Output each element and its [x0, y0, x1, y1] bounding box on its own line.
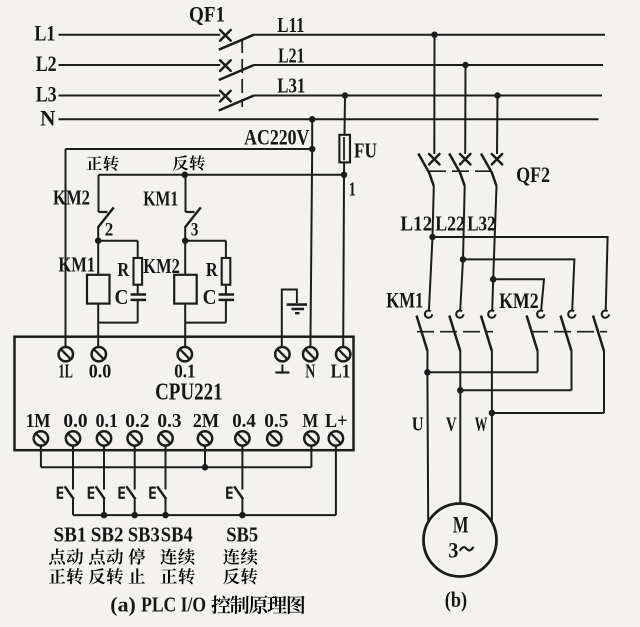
- pushbutton SB5 wire to rail: [241, 499, 243, 515]
- breaker QF2 linkage: [429, 170, 491, 172]
- svg-text:C: C: [115, 285, 129, 309]
- wire L+ drop: [335, 446, 337, 515]
- wire RC1 return: [98, 322, 138, 324]
- contactor KM1 pole3 hook: [488, 311, 495, 318]
- junction on L11: [431, 31, 438, 38]
- PLC bottom terminal M: [304, 431, 318, 445]
- svg-text:SB2: SB2: [91, 522, 124, 546]
- svg-text:KM1: KM1: [58, 253, 95, 277]
- contact KM1 NC fixed tick: [186, 211, 195, 213]
- svg-text:0.4: 0.4: [232, 410, 256, 432]
- wire ground hook: [282, 290, 297, 304]
- pushbutton SB5 blade: [234, 486, 243, 499]
- contactor KM2 linkage: [531, 331, 607, 333]
- wire W to motor: [491, 413, 493, 522]
- pushbutton SB3 actuator: [118, 487, 120, 499]
- junction node 1: [341, 172, 348, 179]
- svg-text:SB4: SB4: [161, 522, 193, 546]
- label SB1 function line1 (dian dong): [49, 548, 65, 564]
- wire 1M drop: [40, 446, 42, 468]
- svg-text:QF2: QF2: [516, 162, 550, 187]
- contactor KM1 pole1 blade: [417, 316, 428, 352]
- wire L31 drop to QF2: [496, 96, 499, 155]
- label reverse (fan zhuan): [173, 155, 188, 170]
- wire L3: [59, 95, 221, 97]
- PLC bottom terminal 0.5: [267, 431, 281, 445]
- pushbutton SB4 wire from PLC: [165, 446, 167, 490]
- wire junction to coil KM2: [184, 241, 186, 275]
- junction V: [457, 387, 464, 394]
- svg-text:(b): (b): [445, 587, 467, 612]
- svg-text:0.0: 0.0: [89, 360, 112, 382]
- wire L22 to KM2 pole2: [463, 259, 574, 310]
- contact KM2 NC fixed tick: [99, 211, 108, 213]
- PLC bottom terminal 0.4: [235, 431, 249, 445]
- PLC bottom terminal L+: [329, 431, 343, 445]
- junction branch2: [182, 237, 189, 244]
- fuse FU wire: [344, 96, 345, 175]
- junction on L31 to FU: [342, 92, 349, 99]
- wire button rail: [73, 514, 336, 516]
- PLC ground terminal mark: [281, 365, 283, 373]
- wire KM1 pole1 out: [426, 351, 428, 372]
- svg-text:L21: L21: [278, 43, 304, 67]
- wire L11: [254, 34, 605, 36]
- pushbutton SB3 blade: [126, 486, 135, 499]
- svg-text:L12: L12: [400, 211, 432, 235]
- svg-text:W: W: [475, 413, 488, 435]
- wire RC branch1 upper: [137, 241, 139, 258]
- pushbutton SB1 actuator: [57, 487, 59, 499]
- breaker QF1 pole 2 contact X: [220, 60, 231, 71]
- breaker QF1 pole 2 blade: [219, 65, 254, 80]
- wire left rail to 1L: [65, 149, 67, 347]
- breaker QF2 blade: [481, 154, 497, 187]
- PLC top terminal N: [303, 347, 317, 361]
- label SB1 function line2 (zheng zhuan): [49, 568, 65, 583]
- breaker QF2 contact X: [460, 154, 470, 164]
- PLC bottom terminal 0.0: [66, 431, 80, 445]
- contactor KM1 pole3 blade: [481, 316, 492, 352]
- breaker QF2 blade: [449, 154, 465, 187]
- svg-text:3: 3: [448, 537, 458, 562]
- pushbutton SB1 wire to rail: [72, 499, 74, 515]
- wire coil KM2 to 0.1 terminal: [184, 304, 186, 348]
- svg-text:QF1: QF1: [189, 2, 225, 27]
- wire control top rail: [66, 148, 313, 150]
- svg-text:0.1: 0.1: [174, 360, 195, 382]
- wire C1 down: [137, 300, 139, 323]
- breaker QF1 pole 1 blade: [219, 35, 254, 50]
- breaker QF2 contact X: [429, 154, 439, 164]
- breaker QF1 linkage: [241, 39, 243, 107]
- svg-text:0.1: 0.1: [96, 410, 119, 432]
- pushbutton SB2 wire to rail: [103, 499, 105, 515]
- svg-text:SB1: SB1: [54, 522, 87, 546]
- label SB4 function line2 (zheng zhuan): [161, 568, 177, 583]
- label SB3 function line1 (ting): [128, 548, 145, 564]
- wire branch1 upper: [98, 175, 100, 212]
- svg-text:R: R: [117, 259, 129, 281]
- svg-text:M: M: [303, 410, 319, 432]
- junction W: [489, 410, 496, 417]
- capacitor C1 top plate: [131, 293, 147, 296]
- pushbutton SB4 blade: [157, 486, 166, 499]
- pushbutton SB5 wire from PLC: [241, 446, 243, 490]
- pushbutton SB4 wire to rail: [165, 499, 167, 515]
- svg-text:L3: L3: [36, 81, 57, 106]
- wire coil KM1 to 0.0 terminal: [97, 304, 99, 348]
- svg-text:KM2: KM2: [499, 288, 538, 313]
- junction on L31 to QF2: [494, 92, 501, 99]
- wire QF2 out A: [429, 186, 434, 311]
- svg-text:0.2: 0.2: [125, 410, 149, 432]
- junction reverse branch: [182, 172, 189, 179]
- PLC top terminal 0.0: [92, 347, 106, 361]
- wire L11 drop to QF2: [433, 35, 435, 154]
- svg-text:M: M: [453, 513, 469, 539]
- pushbutton SB2 blade: [96, 486, 105, 499]
- wire 2M drop: [204, 446, 206, 468]
- svg-text:2M: 2M: [193, 410, 219, 432]
- contactor KM2 pole1 hook: [537, 311, 544, 318]
- pushbutton SB2 wire from PLC: [103, 446, 105, 490]
- svg-text:0.3: 0.3: [157, 410, 181, 432]
- wire branch2 upper: [185, 175, 187, 212]
- breaker QF1 pole 1 contact X: [220, 30, 231, 41]
- contactor KM2 pole2 hook: [568, 311, 575, 318]
- pushbutton SB2 actuator: [88, 487, 90, 499]
- svg-text:(a): (a): [110, 593, 136, 617]
- svg-text:1M: 1M: [26, 410, 51, 432]
- PLC top terminal ground: [275, 347, 289, 361]
- caption (a) part3 (kong zhi yuan li tu): [211, 595, 230, 614]
- breaker QF1 pole 3 contact X: [220, 91, 231, 102]
- contactor KM1 pole1 hook: [425, 311, 432, 318]
- wire N vertical to PLC N terminal: [310, 149, 312, 347]
- contact KM1 NC blade: [185, 207, 201, 227]
- pushbutton SB3 wire to rail: [134, 499, 136, 515]
- wire KM2 pole2 out: [571, 351, 573, 390]
- PLC top terminal 0.1: [178, 347, 192, 361]
- svg-text:1L: 1L: [58, 360, 73, 382]
- contactor KM2 pole3 blade: [593, 316, 604, 352]
- label forward (zheng zhuan): [87, 156, 102, 170]
- PLC bottom terminal 0.1: [97, 431, 111, 445]
- contactor KM2 pole3 hook: [602, 311, 609, 318]
- wire N: [59, 118, 599, 120]
- svg-text:KM1: KM1: [386, 288, 423, 313]
- motor M body: [424, 504, 497, 577]
- wire ground riser: [281, 289, 283, 348]
- svg-text:KM1: KM1: [143, 187, 178, 211]
- junction SB2 on rail: [101, 512, 108, 519]
- capacitor C2 bottom plate: [219, 299, 235, 302]
- PLC bottom terminal 0.2: [128, 431, 142, 445]
- junction branch1: [95, 237, 102, 244]
- svg-text:SB3: SB3: [128, 522, 160, 546]
- svg-text:L32: L32: [467, 211, 495, 235]
- wire L21 drop to QF2: [464, 65, 466, 154]
- svg-text:V: V: [446, 413, 457, 435]
- svg-text:0.0: 0.0: [63, 410, 87, 432]
- wire V to motor: [459, 390, 461, 505]
- wire KM1 pole2 out: [459, 351, 461, 390]
- contactor KM1 pole2 hook: [456, 311, 463, 318]
- wire KM1 pole3 out: [491, 351, 493, 413]
- wire KM2 pole1 out: [537, 351, 539, 372]
- svg-text:L31: L31: [277, 74, 305, 98]
- wire QF2 out C: [492, 186, 496, 311]
- svg-text:L22: L22: [435, 211, 465, 235]
- svg-text:PLC I/O: PLC I/O: [141, 593, 206, 617]
- wire branch rail: [99, 174, 345, 176]
- wire L2: [59, 64, 221, 66]
- wire branch1 to junction: [97, 227, 99, 241]
- wire L31: [254, 95, 602, 97]
- svg-text:FU: FU: [354, 138, 377, 162]
- wire W crossover: [492, 412, 604, 414]
- wire RC branch2 upper: [225, 241, 227, 258]
- svg-text:L11: L11: [277, 13, 304, 37]
- pushbutton SB4 actuator: [149, 487, 151, 499]
- wire branch2 to junction: [184, 227, 186, 241]
- wire FU to PLC L1 terminal: [342, 175, 345, 347]
- svg-text:0.5: 0.5: [264, 410, 288, 432]
- PLC bottom terminal 0.3: [158, 431, 172, 445]
- junction L12: [429, 234, 436, 241]
- coil KM2 body: [174, 275, 197, 304]
- junction SB5 on rail: [239, 512, 246, 519]
- wire L21: [254, 64, 603, 66]
- svg-text:L1: L1: [34, 21, 55, 46]
- label SB3 function line2 (zhi): [129, 568, 145, 583]
- wire L32 to KM2 pole1: [493, 279, 544, 310]
- wire L1: [59, 34, 221, 36]
- fuse FU body: [339, 135, 350, 163]
- wire to RC branch1: [98, 240, 138, 242]
- pushbutton SB1 wire from PLC: [72, 446, 74, 490]
- label SB2 function line2 (fan zhuan): [89, 568, 106, 584]
- wire U crossover: [427, 371, 537, 373]
- wire common bus: [41, 466, 312, 468]
- contactor KM1 pole2 blade: [449, 316, 460, 352]
- svg-text:SB5: SB5: [226, 522, 258, 546]
- junction L22: [460, 256, 467, 263]
- label SB2 function line1 (dian dong): [89, 548, 105, 564]
- junction U: [424, 369, 431, 376]
- junction L32: [490, 276, 497, 283]
- PLC CPU221 box: [15, 337, 354, 451]
- resistor R2 body: [222, 258, 231, 285]
- svg-text:1: 1: [349, 179, 356, 201]
- wire R1 to C1: [137, 285, 139, 295]
- breaker QF2 blade: [418, 154, 434, 187]
- contactor KM1 linkage: [417, 331, 493, 333]
- contactor KM2 pole2 blade: [561, 316, 572, 352]
- wire to RC branch2: [185, 240, 226, 242]
- svg-text:CPU221: CPU221: [155, 380, 223, 406]
- PLC bottom terminal 2M: [198, 431, 212, 445]
- pushbutton SB5 actuator: [226, 487, 228, 499]
- PLC top terminal 1L: [59, 347, 73, 361]
- svg-text:L1: L1: [331, 360, 351, 382]
- junction SB3 on rail: [131, 512, 138, 519]
- ground symbol bar 1: [287, 303, 307, 306]
- breaker QF2 contact X: [492, 154, 502, 164]
- wire M drop: [310, 446, 312, 468]
- svg-text:C: C: [203, 285, 217, 309]
- svg-text:N: N: [305, 360, 315, 382]
- label SB5 function line2 (fan zhuan): [223, 568, 240, 584]
- svg-text:KM2: KM2: [53, 185, 90, 209]
- svg-text:3: 3: [191, 220, 199, 241]
- svg-text:U: U: [412, 413, 424, 435]
- coil KM1 body: [87, 275, 110, 304]
- pushbutton SB1 blade: [65, 486, 74, 499]
- contact KM2 NC blade: [98, 207, 114, 227]
- label SB4 function line1 (lian xu): [160, 549, 176, 565]
- PLC bottom terminal 1M: [34, 431, 48, 445]
- junction 2M on bus: [202, 464, 209, 471]
- wire N drop to control rail: [311, 119, 313, 149]
- junction on L21: [462, 62, 469, 69]
- wire V crossover: [460, 389, 571, 391]
- capacitor C2 top plate: [219, 293, 235, 296]
- breaker QF1 pole 3 blade: [219, 96, 254, 111]
- wire U to motor: [426, 372, 429, 522]
- PLC top terminal L1: [336, 347, 350, 361]
- wire L12 to KM2 pole3: [433, 237, 608, 311]
- resistor R1 body: [134, 258, 143, 285]
- svg-text:N: N: [40, 105, 55, 130]
- junction on N: [309, 116, 316, 123]
- ground symbol bar 3: [295, 312, 299, 314]
- svg-text:L2: L2: [36, 51, 57, 76]
- junction SB4 on rail: [162, 512, 169, 519]
- wire C2 down: [225, 300, 227, 323]
- svg-text:2: 2: [105, 219, 114, 240]
- svg-text:R: R: [206, 259, 218, 281]
- contactor KM2 pole1 blade: [527, 316, 538, 352]
- capacitor C1 bottom plate: [131, 299, 147, 302]
- wire RC2 return: [185, 322, 226, 324]
- junction control rail / N: [309, 146, 316, 153]
- fuse FU inner wire: [343, 137, 345, 160]
- label SB5 function line1 (lian xu): [223, 549, 239, 565]
- svg-text:AC220V: AC220V: [244, 125, 309, 150]
- svg-text:L+: L+: [325, 410, 348, 432]
- wire QF2 out B: [460, 186, 465, 311]
- ground symbol bar 2: [292, 308, 305, 311]
- wire junction to coil KM1: [97, 241, 99, 275]
- pushbutton SB3 wire from PLC: [134, 446, 136, 490]
- wire R2 to C2: [225, 285, 227, 295]
- wire KM2 pole3 out: [603, 351, 605, 413]
